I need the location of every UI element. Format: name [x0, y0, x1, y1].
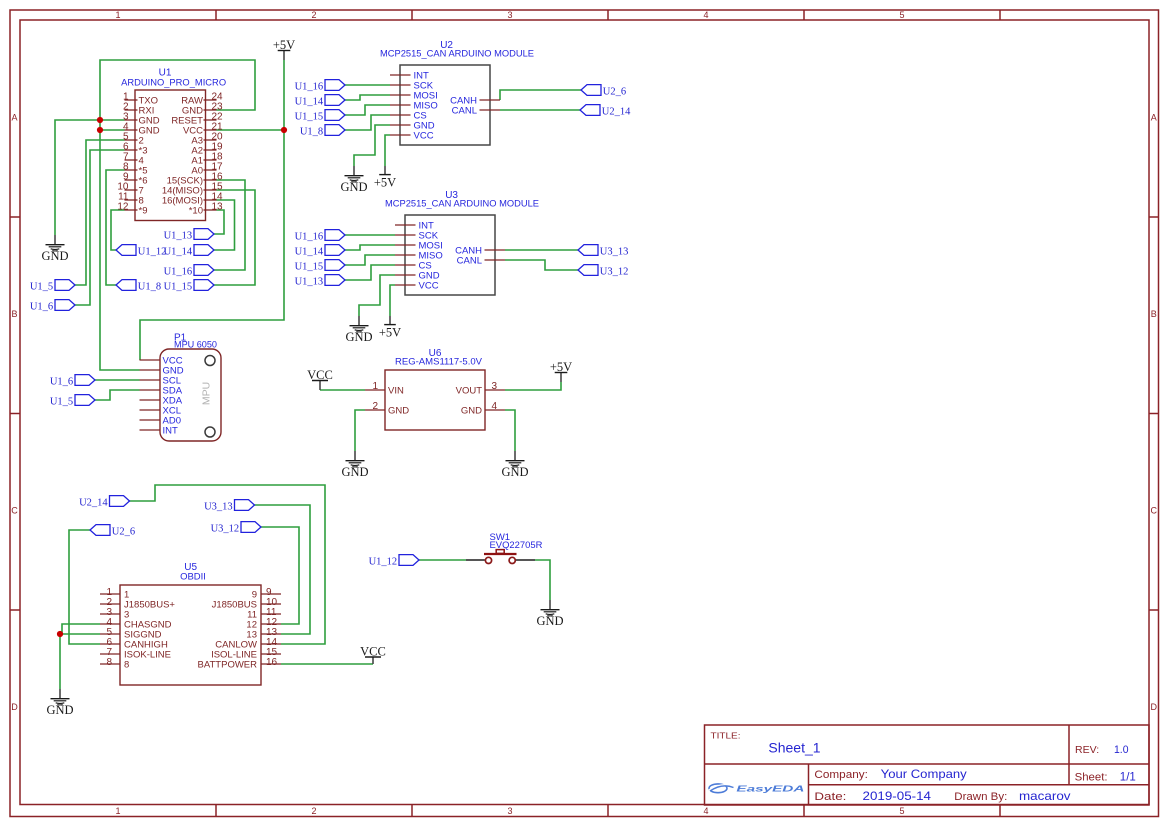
net flag U1_13: [295, 275, 345, 288]
net flag U3_13: [578, 245, 628, 258]
P1 pin SCL: [140, 376, 181, 387]
wire U1_15 to U2 MISO: [345, 105, 390, 115]
U1 pin 5 (2): [123, 132, 144, 147]
wire U5 BATTPOWER to VCC: [281, 663, 373, 665]
net flag U2_14: [79, 496, 129, 509]
U1 pin 15 (14(MISO)): [162, 182, 223, 197]
connector P1 MPU 6050: [160, 333, 221, 442]
svg-text:D: D: [11, 702, 18, 712]
wire U3 CANL to U3_12: [505, 260, 578, 270]
wire U3_13 to U5 pin13: [255, 505, 311, 634]
svg-text:EasyEDA: EasyEDA: [736, 784, 804, 794]
U1 pin 10 (7): [117, 182, 143, 197]
U5 pin 14 (CANLOW): [215, 637, 281, 651]
ground under U2: [340, 166, 367, 194]
svg-text:INT: INT: [163, 426, 179, 437]
wire U1_16 to U3 SCK: [345, 234, 395, 236]
wire U1_13 to U3 CS: [345, 265, 395, 280]
svg-text:macarov: macarov: [1019, 789, 1071, 803]
svg-text:*10: *10: [189, 206, 203, 217]
svg-text:3: 3: [492, 381, 498, 392]
wire U3 GND to ground: [359, 275, 395, 316]
svg-text:U1_12: U1_12: [138, 246, 167, 257]
U1 pin 9 (*6): [123, 172, 148, 187]
U2 pin MOSI: [390, 91, 438, 102]
U3 pin SCK: [395, 231, 439, 242]
net flag U1_15: [295, 260, 345, 273]
svg-text:2019-05-14: 2019-05-14: [863, 789, 932, 803]
svg-text:U3_13: U3_13: [600, 246, 629, 257]
junction U5 SIGGND gnd net: [57, 631, 63, 637]
net flag U1_14: [295, 245, 345, 258]
wire U1_13 to U1 pin13: [214, 210, 224, 234]
U1 pin 18 (A1): [191, 152, 223, 167]
svg-text:U2_6: U2_6: [112, 526, 135, 537]
svg-text:2: 2: [372, 401, 378, 412]
svg-text:12: 12: [117, 202, 129, 213]
P1 pin GND: [140, 366, 184, 377]
svg-text:U1_16: U1_16: [295, 81, 324, 92]
U5 pin 9 (9): [252, 587, 281, 601]
svg-text:B: B: [1151, 309, 1157, 319]
svg-text:U2_14: U2_14: [79, 497, 108, 508]
U5 pin 4 (CHASGND): [100, 617, 172, 631]
U2 pin CS: [390, 111, 427, 122]
U2 pin MISO: [390, 101, 438, 112]
svg-text:+5V: +5V: [374, 176, 396, 190]
U2 pin GND: [390, 121, 435, 132]
svg-text:U1_5: U1_5: [30, 281, 53, 292]
U3 pin CS: [395, 261, 432, 272]
U1 pin 7 (4): [123, 152, 144, 167]
wire U5 SIGGND to gnd: [60, 633, 100, 635]
wire gnd net vertical to P1 GND: [100, 120, 140, 370]
svg-text:3: 3: [507, 10, 512, 20]
U3 pin MOSI: [395, 241, 443, 252]
svg-text:8: 8: [124, 660, 129, 671]
wire U1_8 to U2 CS: [345, 115, 390, 130]
wire U1 pin4 GND stub: [100, 129, 125, 131]
wire U5 CHASGND to gnd: [62, 624, 100, 634]
U5 pin 15 (ISOL-LINE): [211, 647, 281, 661]
connector U5 OBDII: [120, 562, 261, 685]
U6 pin 4 (GND): [461, 401, 505, 417]
U2 pin SCK: [390, 81, 434, 92]
power VCC at U5 BATTPOWER: [360, 645, 386, 665]
svg-text:GND: GND: [501, 465, 528, 479]
U1 pin 19 (A2): [191, 142, 223, 157]
power +5V under U2: [374, 166, 396, 190]
wire U3 VCC to +5V: [390, 285, 395, 316]
U1 pin 6 (*3): [123, 142, 148, 157]
U1 pin 4 (GND): [123, 122, 160, 137]
title block: [705, 725, 1150, 805]
wire U2 VCC to +5V: [385, 135, 390, 166]
wire VCC to U6 VIN: [320, 389, 365, 391]
ground under U6 pin2: [341, 451, 368, 479]
U1 pin 14 (16(MOSI)): [162, 192, 223, 207]
svg-text:4: 4: [703, 806, 708, 816]
svg-text:TITLE:: TITLE:: [711, 731, 741, 741]
U1 pin 3 (GND): [123, 112, 160, 127]
svg-text:VIN: VIN: [388, 386, 404, 397]
net flag U1_12: [369, 555, 419, 568]
wire U1 pin3 GND to ground: [55, 120, 125, 235]
wire U1_16 to U2 SCK: [345, 84, 390, 86]
svg-text:U1_8: U1_8: [300, 126, 323, 137]
net flag U3_13: [204, 500, 254, 513]
svg-text:U2_6: U2_6: [603, 86, 626, 97]
svg-text:1.0: 1.0: [1114, 744, 1129, 756]
U5 pin 8 (8): [100, 657, 129, 671]
wire U5 CANHIGH to U2_6: [69, 530, 100, 644]
svg-text:2: 2: [311, 10, 316, 20]
U5 pin 10 (J1850BUS): [212, 597, 281, 611]
svg-text:REG-AMS1117-5.0V: REG-AMS1117-5.0V: [395, 357, 483, 368]
svg-text:Sheet_1: Sheet_1: [768, 740, 820, 756]
net flag U1_5: [50, 395, 95, 408]
U1 pin 20 (A3): [191, 132, 223, 147]
net flag U1_5: [30, 280, 75, 293]
U1 pin 22 (RESET): [171, 112, 223, 127]
ground near U1: [41, 235, 68, 263]
ground under U6 pin4: [501, 451, 528, 479]
U1 pin 13 (*10): [189, 202, 223, 217]
U3 pin GND: [395, 271, 440, 282]
net flag U2_6: [90, 525, 135, 538]
svg-text:+5V: +5V: [273, 38, 295, 52]
ground under U3: [345, 316, 372, 344]
svg-text:A: A: [1151, 113, 1157, 123]
net flag U1_16: [164, 265, 214, 278]
svg-text:CANL: CANL: [457, 256, 482, 267]
U1 pin 16 (15(SCK)): [167, 172, 223, 187]
EasyEDA logo: [709, 784, 804, 794]
U1 pin 8 (*5): [123, 162, 148, 177]
net flag U2_6: [581, 85, 626, 98]
svg-text:1: 1: [372, 381, 378, 392]
svg-text:3: 3: [507, 806, 512, 816]
IC U2 MCP2515_CAN ARDUINO MODULE: [380, 40, 534, 145]
junction U1 pin4 gnd net: [97, 127, 103, 133]
svg-text:Drawn By:: Drawn By:: [954, 791, 1007, 803]
wire U2 GND to ground: [354, 125, 390, 166]
U1 pin 1 (TXO): [123, 92, 158, 107]
U1 pin 21 (VCC): [183, 122, 223, 137]
net flag U1_6: [50, 375, 95, 388]
U3 pin MISO: [395, 251, 443, 262]
wire U1_16 to U1 pin16: [214, 180, 245, 270]
wire U6 GND4 to ground: [505, 410, 515, 451]
U1 pin 2 (RXI): [123, 102, 154, 117]
wire U6 GND2 to ground: [355, 410, 365, 451]
svg-text:REV:: REV:: [1075, 744, 1099, 756]
wire gnd net to ground: [59, 634, 61, 689]
ground under U5: [46, 689, 73, 717]
U2 pin CANH: [450, 96, 500, 107]
svg-text:B: B: [11, 309, 17, 319]
svg-text:U1_8: U1_8: [138, 281, 161, 292]
U6 pin 1 (VIN): [365, 381, 404, 397]
wire U2_14 to U5 CANLOW: [130, 485, 326, 644]
U2 pin CANL: [452, 106, 500, 117]
wire U1_12 to U1 pin12: [111, 210, 125, 250]
svg-text:VCC: VCC: [414, 131, 434, 142]
svg-text:MCP2515_CAN ARDUINO MODULE: MCP2515_CAN ARDUINO MODULE: [385, 199, 539, 210]
power +5V top rail: [273, 38, 295, 60]
regulator U6 REG-AMS1117-5.0V: [385, 348, 485, 430]
svg-text:U1_6: U1_6: [50, 376, 73, 387]
svg-text:*9: *9: [139, 206, 148, 217]
net flag U1_14: [295, 95, 345, 108]
U3 pin INT: [395, 221, 434, 232]
svg-text:4: 4: [492, 401, 498, 412]
wire U1_15 to U1 pin15: [214, 190, 255, 285]
wire U1_8 to U1 pin8: [106, 170, 125, 285]
wire U2 CANL to U2_14: [500, 109, 580, 111]
net flag U3_12: [578, 265, 628, 278]
U5 pin 12 (12): [246, 617, 281, 631]
wire +5V rail to P1 VCC: [140, 60, 284, 360]
svg-text:U2_14: U2_14: [602, 106, 631, 117]
svg-text:D: D: [1150, 702, 1157, 712]
svg-text:U3_12: U3_12: [211, 523, 240, 534]
svg-text:2: 2: [311, 806, 316, 816]
P1 pin XCL: [140, 406, 181, 417]
svg-text:GND: GND: [345, 330, 372, 344]
svg-text:U1_12: U1_12: [369, 556, 398, 567]
svg-text:+5V: +5V: [550, 360, 572, 374]
wire U1_6 to U1 pin6: [75, 150, 125, 305]
junction U1 VCC +5V rail: [281, 127, 287, 133]
svg-text:BATTPOWER: BATTPOWER: [198, 660, 258, 671]
svg-text:16: 16: [266, 657, 278, 668]
U5 pin 5 (SIGGND): [100, 627, 162, 641]
svg-text:1: 1: [115, 10, 120, 20]
net flag U1_15: [295, 110, 345, 123]
power +5V at U6 VOUT: [550, 360, 572, 382]
U5 pin 1 (1): [100, 587, 129, 601]
svg-text:13: 13: [212, 202, 224, 213]
net flag U1_13: [164, 229, 214, 242]
P1 pin AD0: [140, 416, 181, 427]
svg-text:A: A: [11, 113, 17, 123]
U5 pin 11 (11): [247, 607, 281, 621]
svg-text:U1_15: U1_15: [164, 281, 193, 292]
U3 pin CANL: [457, 256, 505, 267]
svg-text:VCC: VCC: [307, 368, 333, 382]
IC U3 MCP2515_CAN ARDUINO MODULE: [385, 190, 539, 295]
wire U3 CANH to U3_13: [505, 249, 578, 251]
U3 pin CANH: [455, 246, 505, 257]
wire U2 CANH to U2_6: [500, 90, 581, 100]
power +5V under U3: [379, 316, 401, 340]
net flag U3_12: [211, 522, 261, 535]
net flag U1_14: [164, 245, 214, 258]
U1 pin 23 (GND): [182, 102, 223, 117]
U1 pin 11 (8): [118, 192, 144, 207]
svg-text:MCP2515_CAN ARDUINO MODULE: MCP2515_CAN ARDUINO MODULE: [380, 49, 534, 60]
wire U1_14 to U1 pin14: [214, 200, 235, 250]
net flag U1_8: [300, 125, 345, 138]
net flag U1_16: [295, 230, 345, 243]
svg-text:VOUT: VOUT: [456, 386, 483, 397]
wire U1_6 to P1 SCL: [95, 379, 140, 381]
wire U1_14 to U3 MOSI: [345, 245, 395, 250]
svg-text:J1850BUS+: J1850BUS+: [124, 600, 175, 611]
svg-text:U1_13: U1_13: [295, 276, 324, 287]
P1 pin VCC: [140, 356, 183, 367]
U2 pin INT: [390, 71, 429, 82]
svg-text:U3_12: U3_12: [600, 266, 629, 277]
switch SW1 EVQ22705R: [466, 532, 543, 564]
svg-text:U1_15: U1_15: [295, 261, 324, 272]
net flag U1_15: [164, 280, 214, 293]
junction U1 pin3 gnd net: [97, 117, 103, 123]
wire U1_12 to SW1: [419, 559, 466, 561]
svg-text:+5V: +5V: [379, 326, 401, 340]
svg-text:1: 1: [115, 806, 120, 816]
svg-text:ARDUINO_PRO_MICRO: ARDUINO_PRO_MICRO: [121, 78, 226, 89]
U5 pin 6 (CANHIGH): [100, 637, 168, 651]
P1 pin SDA: [140, 386, 183, 397]
net flag U1_8: [116, 280, 161, 293]
U1 pin 24 (RAW): [181, 92, 223, 107]
svg-text:U1_16: U1_16: [164, 266, 193, 277]
U5 pin 7 (ISOK-LINE): [100, 647, 171, 661]
U5 pin 13 (13): [246, 627, 281, 641]
svg-text:MPU: MPU: [201, 382, 213, 405]
svg-text:C: C: [1150, 506, 1157, 516]
svg-text:U1_5: U1_5: [50, 396, 73, 407]
svg-text:VCC: VCC: [360, 645, 386, 659]
U1 pin 17 (A0): [191, 162, 223, 177]
U5 pin 16 (BATTPOWER): [198, 657, 281, 671]
U6 pin 2 (GND): [365, 401, 409, 417]
U1 pin 12 (*9): [117, 202, 147, 217]
wire SW1 to ground: [535, 560, 550, 600]
svg-text:GND: GND: [46, 703, 73, 717]
wire U1_14 to U2 MOSI: [345, 95, 390, 100]
svg-text:GND: GND: [536, 614, 563, 628]
ground under SW1: [536, 600, 563, 628]
power VCC at U6 VIN: [307, 368, 333, 390]
svg-text:U1_14: U1_14: [295, 246, 324, 257]
svg-text:U1_16: U1_16: [295, 231, 324, 242]
wire U6 VOUT to +5V: [505, 382, 561, 390]
net flag U2_14: [580, 105, 631, 118]
IC U1 ARDUINO_PRO_MICRO: [121, 68, 226, 221]
wire U1_15 to U3 MISO: [345, 255, 395, 265]
svg-text:1/1: 1/1: [1120, 770, 1136, 784]
svg-text:Company:: Company:: [814, 769, 868, 781]
wire U3_12 to U5 pin12: [261, 527, 299, 624]
P1 pin XDA: [140, 396, 183, 407]
U2 pin VCC: [390, 131, 434, 142]
wire U1 pin21 VCC to +5V rail: [217, 129, 285, 131]
wire U1 pin23 GND to gnd net: [100, 60, 255, 120]
svg-text:Date:: Date:: [814, 791, 846, 803]
svg-text:Your Company: Your Company: [881, 767, 967, 781]
U3 pin VCC: [395, 281, 439, 292]
U6 pin 3 (VOUT): [456, 381, 505, 397]
svg-text:U3_13: U3_13: [204, 501, 233, 512]
U5 pin 2 (J1850BUS+): [100, 597, 175, 611]
wire U1_5 to U1 pin5: [75, 140, 125, 285]
svg-text:ISOK-LINE: ISOK-LINE: [124, 650, 171, 661]
svg-text:U1_14: U1_14: [164, 246, 193, 257]
svg-text:VCC: VCC: [419, 281, 439, 292]
net flag U1_16: [295, 80, 345, 93]
svg-text:U1_14: U1_14: [295, 96, 324, 107]
svg-text:GND: GND: [341, 465, 368, 479]
wire U1_5 to P1 SDA: [95, 390, 140, 400]
svg-text:U1_15: U1_15: [295, 111, 324, 122]
net flag U1_6: [30, 300, 75, 313]
U5 pin 3 (3): [100, 607, 129, 621]
svg-text:4: 4: [703, 10, 708, 20]
svg-text:Sheet:: Sheet:: [1075, 772, 1108, 784]
svg-text:GND: GND: [41, 249, 68, 263]
P1 pin INT: [140, 426, 179, 437]
svg-text:CANL: CANL: [452, 106, 477, 117]
svg-text:GND: GND: [340, 180, 367, 194]
net flag U1_12: [116, 245, 166, 258]
svg-text:GND: GND: [388, 406, 409, 417]
svg-text:C: C: [11, 506, 18, 516]
svg-text:5: 5: [899, 10, 904, 20]
svg-text:8: 8: [106, 657, 112, 668]
svg-text:5: 5: [899, 806, 904, 816]
svg-text:OBDII: OBDII: [180, 572, 206, 583]
svg-text:U1_13: U1_13: [164, 230, 193, 241]
svg-text:GND: GND: [461, 406, 482, 417]
svg-text:U1_6: U1_6: [30, 301, 53, 312]
